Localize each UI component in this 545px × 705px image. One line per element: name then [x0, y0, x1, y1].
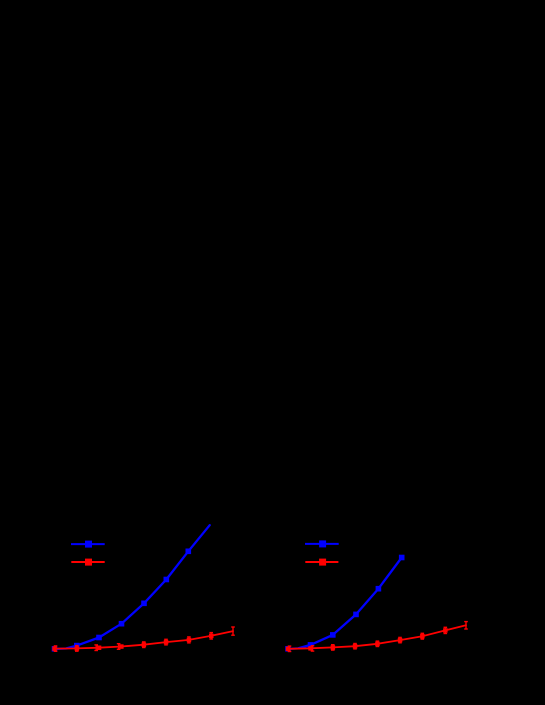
- left chart: red error bars: [54, 627, 235, 651]
- left chart: red markers: [52, 634, 213, 651]
- right chart legend: red series line: [305, 559, 338, 566]
- left chart: blue curve: [55, 525, 210, 649]
- right chart: red error bars: [288, 622, 468, 652]
- right chart legend: blue series line: [305, 540, 339, 547]
- left chart: red curve: [55, 631, 234, 649]
- left chart legend: red series line: [71, 559, 104, 566]
- right chart: blue curve: [288, 558, 402, 650]
- right chart: red markers: [286, 628, 448, 651]
- right chart: red curve: [288, 625, 466, 649]
- left chart: blue markers: [52, 549, 191, 652]
- left chart legend: blue series line: [71, 541, 105, 548]
- right chart: blue markers: [285, 555, 404, 652]
